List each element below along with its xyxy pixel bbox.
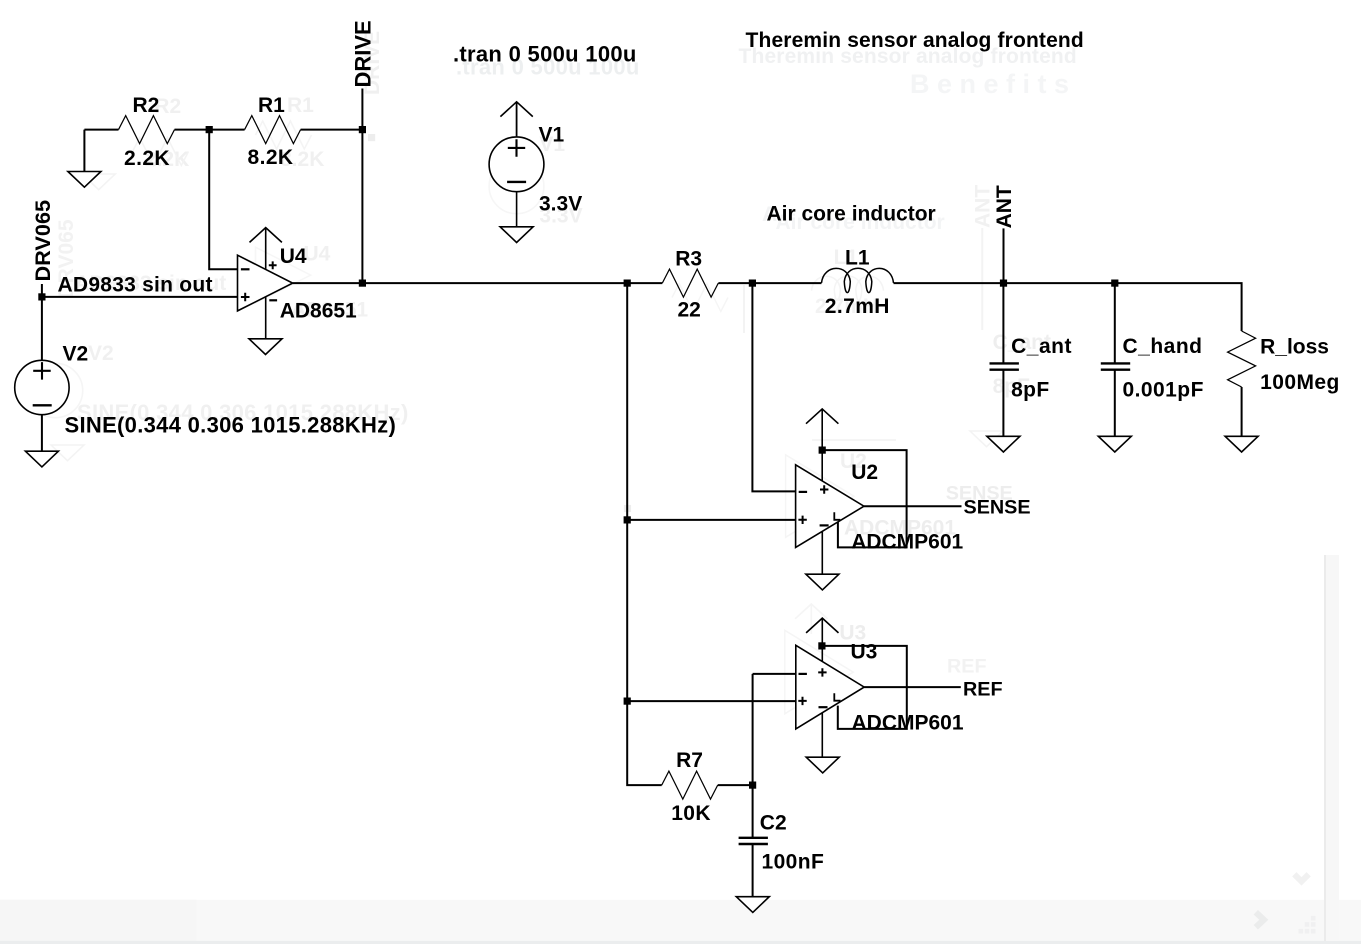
svg-text:ANT: ANT [971, 185, 994, 228]
svg-text:22: 22 [678, 299, 701, 322]
resistor R1 [245, 94, 301, 169]
node junction U2 lower input tap [624, 516, 631, 523]
svg-text:U4: U4 [280, 245, 307, 268]
ground below C2 [736, 897, 769, 913]
node junction DRV065/V2 [38, 293, 45, 300]
node junction R1/DRIVE [359, 126, 366, 133]
svg-text:R2: R2 [133, 94, 160, 117]
wire: C_hand leads [1114, 283, 1116, 436]
svg-text:C_hand: C_hand [1123, 335, 1203, 358]
svg-text:B e n e f i t s: B e n e f i t s [910, 69, 1069, 99]
svg-text:REF: REF [947, 656, 987, 678]
svg-text:100nF: 100nF [762, 851, 825, 874]
ground below C_hand [1098, 436, 1131, 452]
svg-text:V2: V2 [88, 342, 114, 365]
svg-text:SENSE: SENSE [964, 497, 1031, 519]
wire: U2 shutdown tie to V+ [822, 450, 906, 547]
svg-text:8pF: 8pF [1011, 379, 1050, 402]
wire: right tap down to U2 plus input [752, 283, 795, 491]
resistor R7 [662, 749, 718, 825]
wire: R7/C2 node up to U3 minus input [753, 674, 796, 837]
horizontal scrollbar track [0, 900, 1361, 941]
svg-text:R7: R7 [676, 749, 703, 772]
scrollbar right chevron [1256, 912, 1264, 927]
svg-text:0.001pF: 0.001pF [1123, 379, 1204, 402]
wire: ANT stub [1003, 228, 1005, 283]
capacitor C_hand [1101, 335, 1204, 402]
comparator U2 ADCMP601 [796, 409, 964, 574]
wire: R1 right lead [301, 129, 363, 131]
wire: feedback from R2/R1 node down to U4 inverting input [209, 130, 237, 270]
wire: R2 left lead to ground [84, 130, 118, 172]
ghost redraw artifacts [28, 31, 1077, 714]
svg-text:ADCMP601: ADCMP601 [851, 530, 963, 553]
svg-text:V2: V2 [63, 342, 89, 365]
wire: V1 bottom lead [516, 192, 518, 227]
svg-text:R1: R1 [287, 94, 314, 117]
svg-text:R3: R3 [675, 248, 702, 271]
wire: R7 right lead [718, 784, 753, 786]
wire: R2-R1 node [175, 129, 245, 131]
ground below U3 [806, 757, 839, 773]
svg-text:U3: U3 [851, 640, 878, 663]
svg-text:ANT: ANT [993, 185, 1016, 228]
wire: U3 output to REF [864, 686, 961, 688]
node junction R2/R1 [206, 126, 213, 133]
voltage source V1 [489, 102, 582, 216]
node junction U2 V+ [819, 447, 826, 454]
wire: U2 output to SENSE [864, 505, 962, 507]
op-amp U4 AD8651 [238, 228, 358, 339]
wire: U2 lower input from left bus [627, 519, 795, 521]
wire: U3 lower input from left bus [627, 700, 796, 702]
svg-text:C2: C2 [760, 811, 787, 834]
node junction U3 lower input tap [624, 698, 631, 705]
ground below R2 [68, 172, 101, 188]
ground below U4 [249, 339, 282, 355]
svg-text:U2: U2 [851, 461, 878, 484]
svg-text:R_loss: R_loss [1260, 336, 1329, 359]
vertical scrollbar track [1326, 555, 1339, 941]
svg-text:V1: V1 [539, 124, 565, 147]
ground below C_ant [987, 436, 1020, 452]
svg-text:10K: 10K [671, 802, 711, 825]
svg-text:L1: L1 [845, 247, 870, 270]
svg-text:Theremin sensor analog fronten: Theremin sensor analog frontend [746, 29, 1084, 52]
wire: U3 shutdown tie to V+ [822, 646, 907, 729]
svg-text:.tran 0 500u 100u: .tran 0 500u 100u [453, 42, 637, 67]
ground below V2 [25, 451, 58, 467]
comparator U3 ADCMP601 [796, 618, 964, 757]
node junction R3 left tap [624, 280, 631, 287]
svg-text:AD8651: AD8651 [280, 299, 357, 322]
svg-text:C_ant: C_ant [1011, 335, 1072, 358]
voltage source V2 [15, 342, 396, 437]
wire: R_loss bottom lead [1241, 387, 1243, 436]
ground below U2 [806, 574, 839, 590]
resistor R_loss [1228, 331, 1340, 394]
svg-text:3.3V: 3.3V [539, 193, 582, 216]
wire: C2 bottom lead [752, 845, 754, 897]
wire: V2 bottom lead [41, 415, 43, 452]
svg-text:REF: REF [963, 679, 1003, 701]
wire: C_ant leads [1002, 283, 1004, 436]
node junction R7/C2 [749, 782, 756, 789]
wire: V1 top lead [516, 102, 518, 137]
svg-text:Air core inductor: Air core inductor [767, 203, 936, 226]
ground below V1 [500, 227, 533, 243]
node junction ANT [1000, 280, 1007, 287]
node junction C_hand [1111, 280, 1118, 287]
svg-text:U4: U4 [304, 243, 331, 266]
wire: left tap bus down to R7 elbow [627, 283, 662, 785]
wire: DRIVE label stub down to output net [361, 89, 363, 284]
scrollbar down chevron [1294, 874, 1308, 881]
capacitor C_ant [990, 335, 1072, 402]
node junction U4 out / DRIVE [359, 280, 366, 287]
svg-text:AD9833 sin out: AD9833 sin out [58, 273, 213, 296]
svg-text:DRIVE: DRIVE [351, 20, 376, 87]
capacitor C2 [739, 811, 825, 873]
svg-text:100Meg: 100Meg [1260, 371, 1340, 394]
node junction R3 right tap [749, 280, 756, 287]
ground below R_loss [1225, 436, 1258, 452]
svg-text:ADCMP601: ADCMP601 [852, 712, 964, 735]
wire: R3 right to L1 and across to R_loss corner [718, 283, 1241, 331]
bottom window edge [0, 941, 1361, 944]
svg-text:2.2K: 2.2K [124, 147, 170, 170]
inductor L1 [822, 247, 894, 319]
resistor R2 [119, 94, 175, 170]
wire: U4 output / DRIVE net to R3 [293, 282, 663, 284]
svg-text:8.2K: 8.2K [248, 146, 294, 169]
svg-text:DRV065: DRV065 [30, 200, 55, 282]
svg-text:R1: R1 [258, 94, 285, 117]
svg-text:SINE(0.344 0.306 1015.288KHz): SINE(0.344 0.306 1015.288KHz) [65, 413, 397, 438]
node junction U3 V+ [818, 642, 825, 649]
wire: DRV065 / V2 node to U4 non-inverting input [42, 284, 238, 361]
resize grip dots [1299, 916, 1316, 934]
resistor R3 [662, 248, 718, 322]
svg-text:2.7mH: 2.7mH [825, 295, 890, 318]
